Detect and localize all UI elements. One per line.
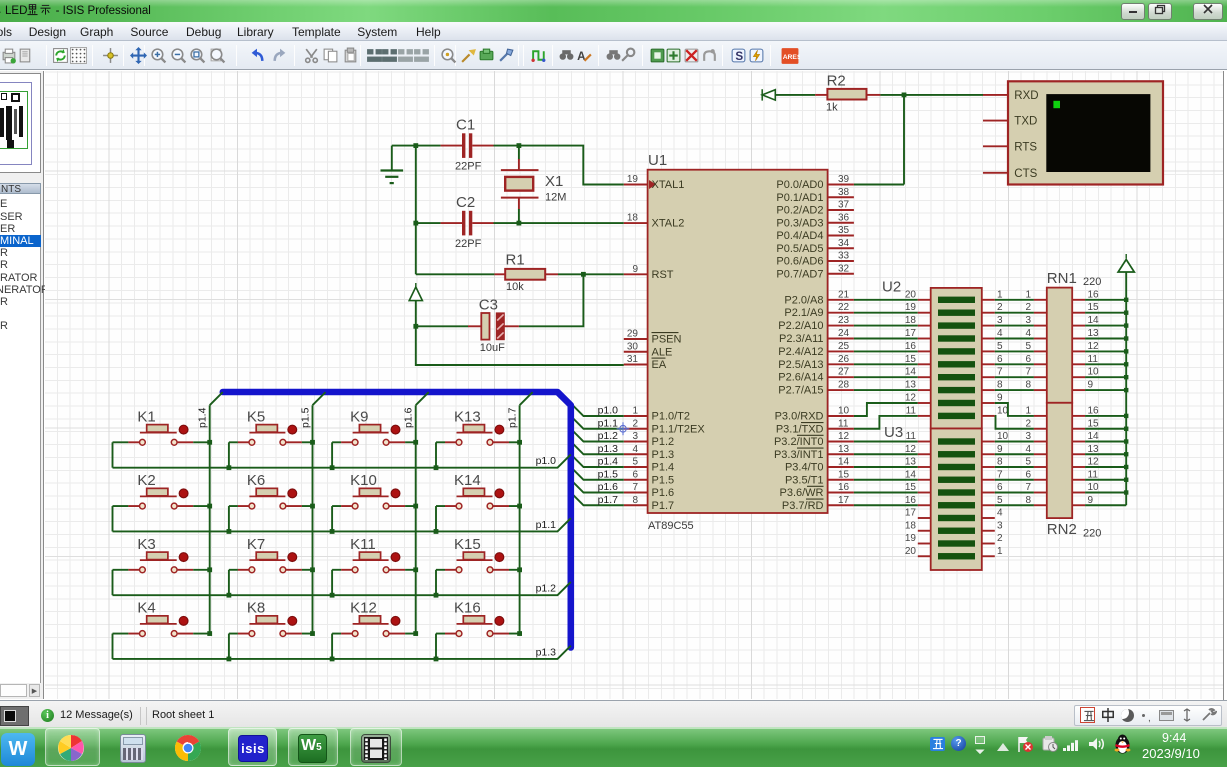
svg-text:34: 34 [838,238,850,249]
node K12 row [330,657,335,662]
wire arrow to R2 [775,94,815,96]
wire column p1.4 vertical [209,405,211,633]
wire RN2 pin11 to rail [1085,479,1126,481]
svg-text:P0.3/AD3: P0.3/AD3 [776,217,823,229]
button K14 [436,472,520,509]
message icon [41,709,54,722]
wire P3.0 to U2 pin12 [854,403,918,416]
pin P2.4 [778,341,854,358]
svg-text:32: 32 [838,263,850,274]
pin P2.5 [778,354,854,371]
overview pane [0,73,41,173]
wire row p1.2 [113,582,571,595]
node K4 column [207,631,212,636]
wire R2 to RXD [880,94,983,96]
pin P3.2 [774,431,854,448]
svg-text:17: 17 [838,495,850,506]
svg-text:4: 4 [1025,328,1031,339]
wire P3.1 to U2 pin11 [854,416,918,429]
pin P2.1 [784,302,854,319]
pin EA [624,354,667,371]
svg-text:RXD: RXD [1014,90,1038,102]
svg-text:P3.1/TXD: P3.1/TXD [776,423,824,435]
node K10 column [413,504,418,509]
wire RN1 pin13 to rail [1085,338,1126,340]
svg-text:6: 6 [632,469,638,480]
pin P0.7 [776,263,853,280]
button K7 [229,536,313,573]
svg-text:P1.4: P1.4 [652,462,675,474]
wire RN2 pin16 to rail [1085,415,1126,417]
button K4 [113,600,210,637]
svg-text:P3.0/RXD: P3.0/RXD [775,411,824,423]
svg-text:4: 4 [1025,444,1031,455]
svg-text:P3.5/T1: P3.5/T1 [785,474,824,486]
svg-text:P3.7/RD: P3.7/RD [782,500,824,512]
svg-text:15: 15 [1088,302,1100,313]
wire P2.6 to U2 [854,376,918,378]
taskbar btn wps v5 [288,728,338,766]
svg-text:19: 19 [905,533,917,544]
pin P0.4 [776,225,853,242]
svg-text:P1.0/T2: P1.0/T2 [652,411,691,423]
led bargraph U2 [882,279,1009,429]
wire RN1 pin9 to rail [1085,389,1126,391]
svg-text:13: 13 [838,444,850,455]
svg-text:1: 1 [1025,405,1031,416]
wire C2 to XTAL2 pin [494,222,624,224]
pin P1.2 [624,431,674,448]
svg-text:14: 14 [905,367,917,378]
wire K14 to row [435,506,437,531]
wire RN1 pin11 to rail [1085,363,1126,365]
node K9 row [330,465,335,470]
svg-text:11: 11 [1088,354,1099,365]
svg-text:6: 6 [1025,354,1031,365]
svg-text:15: 15 [1088,418,1100,429]
svg-text:10: 10 [1088,367,1100,378]
wire p1.6 bus entry to pin [571,480,624,493]
wire U2 pin4 to RN1 [995,338,1034,340]
svg-text:10: 10 [1088,482,1100,493]
svg-text:6: 6 [997,354,1003,365]
svg-text:P2.4/A12: P2.4/A12 [778,346,823,358]
wire P0.0 to node [854,184,904,186]
pin RST [624,264,674,281]
wire p1.3 bus entry to pin [571,442,624,455]
wire X1 bottom to C2 row [518,209,520,223]
power terminal VCC (rail) [1118,254,1134,272]
svg-text:220: 220 [1083,276,1101,288]
button K1 [113,408,210,445]
svg-text:5: 5 [1025,457,1031,468]
wire K11 to row [331,570,333,595]
svg-text:P1.6: P1.6 [652,487,675,499]
resistor pack RN1 [1025,270,1101,403]
svg-text:14: 14 [838,457,850,468]
wire U3 pin7 to RN2 [995,479,1034,481]
svg-text:C1: C1 [456,117,475,134]
wire K10 to row [331,506,333,531]
svg-text:8: 8 [997,457,1003,468]
svg-text:K8: K8 [247,600,265,617]
pin P1.4 [624,457,674,474]
svg-text:X1: X1 [545,173,563,190]
wire P3.2 to U3 [854,441,918,443]
svg-text:4: 4 [997,328,1003,339]
svg-text:23: 23 [838,315,850,326]
taskbar btn pinwheel [45,728,100,766]
taskbar [0,727,1227,767]
svg-text:P2.6/A14: P2.6/A14 [778,372,823,384]
power rail vertical [1125,272,1127,505]
svg-text:3: 3 [1025,315,1031,326]
svg-text:P0.6/AD6: P0.6/AD6 [776,256,823,268]
svg-text:16: 16 [1088,405,1100,416]
svg-text:12: 12 [905,393,917,404]
svg-text:p1.3: p1.3 [536,646,557,658]
wire vcc to EA [416,326,624,365]
svg-text:26: 26 [838,354,850,365]
svg-text:10: 10 [838,406,850,417]
wire RN2 pin14 to rail [1085,441,1126,443]
svg-text:6: 6 [1025,469,1031,480]
pin P1.7 [624,495,674,512]
svg-text:27: 27 [838,367,850,378]
wire C1 to X1 node [494,145,519,147]
pin P2.6 [778,367,854,384]
wire U2 pin7 to RN1 [995,376,1034,378]
svg-text:ARES: ARES [783,54,800,61]
pin P3.0 [775,406,854,423]
svg-text:2: 2 [997,302,1003,313]
wire p1.1 bus entry to pin [571,416,624,429]
wire column p1.6 bus entry [416,392,429,405]
wire K4 to row [112,634,114,659]
svg-text:P1.1/T2EX: P1.1/T2EX [652,423,706,435]
node RST/C3 [581,272,586,277]
svg-text:K16: K16 [454,600,481,617]
wire K15 to row [435,570,437,595]
svg-text:7: 7 [1025,482,1031,493]
svg-text:5: 5 [997,495,1003,506]
node K7 column [310,567,315,572]
svg-text:3: 3 [997,315,1003,326]
wire RN1 pin12 to rail [1085,350,1126,352]
button K5 [229,408,313,445]
pin P0.6 [776,251,853,268]
svg-text:28: 28 [838,380,850,391]
svg-text:7: 7 [632,482,638,493]
svg-text:1: 1 [632,406,638,417]
pin P1.6 [624,482,674,499]
svg-text:1: 1 [997,289,1003,300]
pin P3.5 [785,469,854,486]
node RXD/P0.0 [902,93,907,98]
svg-text:220: 220 [1083,528,1101,540]
svg-text:p1.5: p1.5 [300,407,312,428]
left panel [0,71,44,699]
svg-text:p1.3: p1.3 [598,443,619,455]
wire column p1.7 vertical [519,405,521,633]
svg-text:39: 39 [838,174,850,185]
wire U3 pin6 to RN2 [995,492,1034,494]
wire K7 to row [228,570,230,595]
button K16 [436,600,520,637]
svg-text:p1.1: p1.1 [536,519,557,531]
node vcc/C3 [413,324,418,329]
svg-text:10uF: 10uF [480,342,505,354]
led bargraph U3 [884,424,1009,570]
power terminal VCC (reset) [409,283,422,326]
wire U2 pin9 to RN2 pin1 [995,403,1034,416]
pin P2.2 [778,315,854,332]
svg-text:13: 13 [1088,328,1100,339]
svg-text:9: 9 [997,393,1003,404]
node K10 row [330,529,335,534]
wire K12 to row [331,634,333,659]
wire p1.5 bus entry to pin [571,467,624,480]
svg-text:P0.7/AD7: P0.7/AD7 [776,268,823,280]
svg-text:22PF: 22PF [455,161,482,173]
pin P1.3 [624,444,674,461]
svg-text:5: 5 [997,341,1003,352]
svg-text:16: 16 [905,495,917,506]
svg-text:P0.0/AD0: P0.0/AD0 [776,179,823,191]
object selector header [0,183,41,194]
wire RN2 pin10 to rail [1085,492,1126,494]
wire U3 pin9 to RN2 [995,453,1034,455]
svg-text:AT89C55: AT89C55 [648,520,694,532]
svg-text:PSEN: PSEN [652,334,682,346]
svg-text:K1: K1 [137,408,155,425]
svg-text:p1.6: p1.6 [598,481,619,493]
svg-text:13: 13 [905,457,917,468]
svg-text:1k: 1k [826,102,838,114]
pin P1.1 [624,418,706,435]
svg-text:19: 19 [627,174,639,185]
node K16 row [434,657,439,662]
svg-text:p1.0: p1.0 [536,455,557,467]
svg-text:K9: K9 [350,408,368,425]
svg-text:P1.3: P1.3 [652,449,675,461]
node K8 row [227,657,232,662]
overview blobs [1,93,7,100]
svg-text:4: 4 [997,508,1003,519]
play control [0,706,29,726]
svg-text:12: 12 [905,444,917,455]
svg-text:18: 18 [905,315,917,326]
wire ground to C1 [392,145,441,147]
svg-text:14: 14 [1088,431,1100,442]
svg-text:K3: K3 [137,536,155,553]
svg-text:3: 3 [1025,431,1031,442]
button K11 [332,536,416,573]
wire p1.7 bus entry to pin [571,493,624,506]
svg-text:6: 6 [997,482,1003,493]
svg-text:8: 8 [1025,380,1031,391]
svg-text:3: 3 [632,431,638,442]
svg-text:K5: K5 [247,408,265,425]
node K7 row [227,593,232,598]
svg-text:p1.2: p1.2 [536,583,557,595]
svg-text:17: 17 [905,328,917,339]
wire U2 pin8 to RN1 [995,389,1034,391]
svg-text:20: 20 [905,546,917,557]
svg-text:13: 13 [1088,444,1100,455]
svg-text:16: 16 [1088,289,1100,300]
bus keypad [223,392,571,648]
svg-text:4: 4 [632,444,638,455]
wire U3 pin8 to RN2 [995,466,1034,468]
svg-text:16: 16 [838,482,850,493]
pin P0.1 [776,187,853,204]
node K14 column [517,504,522,509]
svg-text:P0.5/AD5: P0.5/AD5 [776,243,823,255]
svg-text:20: 20 [905,289,917,300]
wire P3.3 to U3 [854,453,918,455]
svg-text:P2.5/A13: P2.5/A13 [778,359,823,371]
svg-text:TXD: TXD [1014,116,1037,128]
svg-text:11: 11 [1088,469,1099,480]
button K15 [436,536,520,573]
svg-text:U1: U1 [648,152,667,169]
svg-text:17: 17 [905,508,917,519]
ground [381,146,404,184]
node K11 row [330,593,335,598]
button K12 [332,600,416,637]
svg-text:15: 15 [838,469,850,480]
svg-text:37: 37 [838,200,850,211]
pin P3.1 [776,418,854,435]
resistor R1 [494,252,558,294]
svg-text:K15: K15 [454,536,481,553]
wire K8 to row [228,634,230,659]
svg-text:CTS: CTS [1014,168,1037,180]
taskbar icon calculator [120,734,146,763]
schematic canvas [45,71,1223,699]
svg-text:9: 9 [632,264,638,275]
svg-text:11: 11 [906,405,917,416]
svg-text:P2.1/A9: P2.1/A9 [784,307,823,319]
svg-text:K13: K13 [454,408,481,425]
wire P2.3 to U2 [854,338,918,340]
svg-text:RN2: RN2 [1047,521,1077,538]
svg-text:24: 24 [838,328,850,339]
node K13 row [434,465,439,470]
svg-text:31: 31 [627,354,639,365]
node K13 column [517,440,522,445]
svg-text:p1.1: p1.1 [598,417,619,429]
svg-text:K2: K2 [137,472,155,489]
svg-text:8: 8 [1025,495,1031,506]
wire U2 pin1 to RN1 [995,299,1034,301]
svg-text:p1.6: p1.6 [403,407,415,428]
wire U3 pin5 to RN2 [995,504,1034,506]
button K3 [113,536,210,573]
node K8 column [310,631,315,636]
svg-text:1: 1 [1025,289,1031,300]
wire K16 to row [435,634,437,659]
wire X1 node to XTAL1 pin [519,146,624,185]
node K6 column [310,504,315,509]
node K9 column [413,440,418,445]
svg-text:p1.4: p1.4 [598,456,619,468]
svg-text:P1.2: P1.2 [652,436,675,448]
wire K3 to row [112,570,114,595]
wire gnd vertical [415,146,417,275]
svg-text:P0.2/AD2: P0.2/AD2 [776,205,823,217]
svg-text:P3.4/T0: P3.4/T0 [785,462,824,474]
pin ALE [624,341,672,358]
wire C3 left to vcc line [416,325,468,327]
svg-text:14: 14 [1088,315,1100,326]
instrument list [0,194,41,683]
node K11 column [413,567,418,572]
svg-text:18: 18 [905,520,917,531]
node at C1 left / gnd vertical [413,143,418,148]
svg-text:P1.7: P1.7 [652,500,675,512]
wire U2 pin6 to RN1 [995,363,1034,365]
svg-text:7: 7 [997,469,1003,480]
svg-text:11: 11 [838,418,849,429]
svg-text:5: 5 [1025,341,1031,352]
node K3 column [207,567,212,572]
svg-text:12: 12 [1088,341,1100,352]
pin P0.0 [776,174,853,191]
wire P3.6 to U3 [854,492,918,494]
node K5 row [227,465,232,470]
wire RN1 pin15 to rail [1085,312,1126,314]
svg-text:p1.2: p1.2 [598,430,619,442]
button K10 [332,472,416,509]
pin P3.7 [782,495,854,512]
tray icons [930,737,945,751]
resistor R2 [815,73,880,114]
svg-text:p1.0: p1.0 [598,405,619,417]
svg-text:U2: U2 [882,279,901,296]
wire P2.0 to U2 [854,299,918,301]
svg-text:R2: R2 [827,73,846,90]
wire RN1 pin10 to rail [1085,376,1126,378]
svg-text:2: 2 [1025,302,1031,313]
wire X1 top stub [518,146,520,160]
status bar [0,700,1227,727]
mcu U1 AT89C55 [648,152,828,532]
pin XTAL2 [624,213,685,230]
wire p1.4 bus entry to pin [571,454,624,467]
wire column p1.7 bus entry [520,392,533,405]
svg-text:22PF: 22PF [455,238,482,250]
svg-text:p1.5: p1.5 [598,468,619,480]
capacitor C1 [441,117,494,173]
wire U3 pin10 to RN2 [995,441,1034,443]
pin P3.6 [779,482,853,499]
node K1 column [207,440,212,445]
svg-text:RST: RST [652,269,674,281]
svg-text:P0.4/AD4: P0.4/AD4 [776,230,823,242]
svg-text:2: 2 [632,418,638,429]
svg-text:25: 25 [838,341,850,352]
wire RN2 pin15 to rail [1085,428,1126,430]
title bar [0,0,1227,22]
wire row p1.3 [113,646,571,659]
pin XTAL1 [624,174,685,191]
node C2 left [413,221,418,226]
button K9 [332,408,416,445]
pin P2.3 [779,328,854,345]
capacitor C2 [441,194,494,250]
